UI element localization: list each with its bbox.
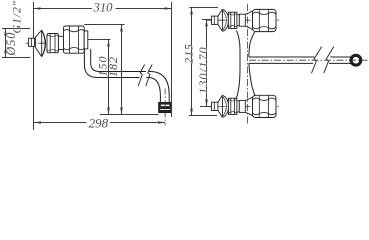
dimension 130/170 extension lines — [202, 19, 212, 21]
top flange (cone) — [218, 9, 223, 31]
wall flange (cone escutcheon) — [35, 30, 41, 57]
svg-text:Ø50: Ø50 — [4, 32, 18, 57]
bottom flange (cone) — [218, 95, 223, 117]
spout pipe (horizontal) — [249, 56, 315, 58]
dimension 215 (vertical) — [190, 8, 193, 116]
bottom ring — [237, 101, 239, 112]
spout tube (down-curve then horizontal) — [84, 49, 139, 78]
pipe break symbol — [312, 47, 322, 74]
svg-text:G1/2″: G1/2″ — [10, 0, 24, 33]
svg-text:298: 298 — [89, 115, 109, 130]
bottom bonnet — [239, 100, 245, 112]
dimension 310 (top) — [34, 7, 172, 10]
dimension D50 line — [4, 29, 7, 58]
aerator centerline (vertical dash-dot) — [164, 89, 166, 126]
wall / extension line (left, x=33.5) — [33, 2, 35, 130]
pipe end ring — [351, 55, 361, 65]
dimension D50 extension lines — [2, 28, 30, 30]
body vertical centerline (dash-dot) — [247, 4, 249, 125]
reference line A (y=24.3 from handle top) — [84, 24, 124, 26]
aerator (spout outlet) — [159, 102, 172, 112]
dimension 298 (bottom) — [34, 121, 165, 124]
dimension 130/170 (vertical) — [205, 20, 208, 107]
collar — [58, 36, 63, 49]
svg-text:182: 182 — [106, 56, 120, 77]
stub weld line — [31, 38, 33, 46]
pipe centerline (dash-dot) — [249, 59, 368, 61]
reference line B (y=40) — [88, 39, 111, 41]
centerline of inlet axis (horizontal dash-dot) — [26, 42, 87, 44]
top body flare — [245, 11, 252, 30]
spout step ring — [84, 31, 88, 49]
top union nut — [228, 12, 237, 28]
body column outline — [236, 30, 240, 98]
top inlet stub — [212, 16, 218, 24]
svg-text:215: 215 — [181, 43, 195, 63]
top handle — [253, 9, 277, 31]
union nut N1 — [47, 34, 58, 53]
bottom body flare — [245, 97, 252, 116]
svg-text:130/170: 130/170 — [196, 46, 210, 94]
dimension 150 (vertical) — [107, 40, 110, 115]
handle chamfer arcs — [64, 30, 85, 32]
top ring — [237, 15, 239, 26]
spout break symbol (two slashes) — [138, 65, 144, 87]
inlet stub (pipe into wall) — [29, 38, 35, 46]
right extension line (x=171, for 310) — [171, 2, 173, 117]
dimension 215 extension lines — [189, 7, 218, 9]
svg-text:310: 310 — [92, 0, 113, 14]
bottom union nut — [228, 98, 237, 114]
top valve axis centerline — [206, 19, 280, 21]
flange rim (bulge arc) — [42, 30, 46, 57]
spout end curve into outlet — [149, 72, 169, 103]
handle silhouette (big hex) — [64, 26, 85, 53]
bottom valve axis centerline — [206, 105, 280, 107]
reference line C (y=114.3 outlet plane) — [100, 114, 159, 116]
bottom handle — [253, 95, 277, 117]
dimension 182 (vertical) — [120, 25, 123, 115]
bottom inlet stub — [212, 102, 218, 110]
top bonnet — [239, 14, 245, 26]
